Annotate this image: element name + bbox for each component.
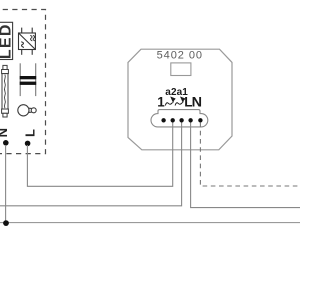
wire L to right edge [191,121,302,208]
svg-text:L: L [23,129,38,137]
svg-text:1: 1 [157,94,165,109]
terminal dot N [198,118,202,122]
svg-text:LED: LED [0,23,15,59]
indicator window [171,63,191,76]
terminal block [151,110,208,127]
wire N dashed to right edge [200,123,302,186]
load box (dashed enclosure) [0,10,46,154]
svg-text:5402 00: 5402 00 [157,50,203,62]
relay insert 5402 00 (octagon housing) [128,49,232,150]
wire a2 to load L [27,121,172,186]
ballast L1 [20,63,37,96]
junction N [3,220,9,226]
extension input symbol a2 [165,97,175,106]
terminal dot a2 [171,118,175,122]
terminal dot a1 [179,118,183,122]
extension input symbol a1 [175,97,185,106]
svg-text:N: N [0,128,10,137]
svg-text:N: N [192,94,202,109]
incandescent lamp E3 [18,105,36,116]
terminal dot L load [25,141,31,147]
terminal dot 1 [161,118,165,122]
neutral distribution line [0,222,300,224]
wire N load down [5,145,7,223]
terminal dot N load [3,140,9,146]
terminal dot L [188,118,192,122]
LED converter U1 [19,28,36,55]
wire a1 to left edge [0,121,182,206]
LED lamp E1 [0,22,15,59]
fluorescent tube E2 [2,65,9,117]
